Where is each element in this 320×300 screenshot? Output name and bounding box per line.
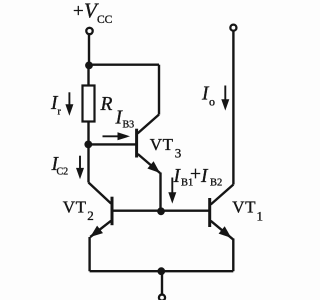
wire VT3 emitter vertical: [159, 173, 161, 212]
wire VT2 emitter vertical: [88, 237, 90, 271]
junction dot top-left: [85, 62, 93, 70]
wire VT1 emitter vertical: [232, 239, 234, 272]
label I_o: [201, 84, 215, 109]
svg-text:VT: VT: [232, 198, 256, 217]
arrow I_o: [221, 86, 229, 111]
label VT3: [150, 135, 182, 161]
wire junction to resistor top: [87, 65, 89, 86]
transistor VT1: [210, 185, 234, 240]
junction dot bottom: [157, 267, 165, 275]
node +VCC label: [73, 0, 113, 26]
svg-text:3: 3: [175, 146, 182, 161]
svg-text:CC: CC: [97, 14, 113, 26]
label I_B1+I_B2: [173, 164, 223, 189]
label VT1: [232, 198, 263, 224]
wire top horizontal: [89, 63, 159, 65]
svg-text:2: 2: [87, 208, 94, 223]
junction dot mid-left: [84, 141, 92, 149]
label I_C2: [51, 154, 69, 177]
label I_r: [50, 93, 62, 117]
wire VT3 collector rail: [158, 65, 160, 115]
arrow I_B1+I_B2: [168, 178, 176, 204]
wire VCC vertical: [88, 35, 90, 65]
svg-text:VT: VT: [63, 198, 87, 217]
terminal +VCC: [86, 28, 92, 34]
wire VT3 base: [89, 143, 136, 145]
wire VT2-VT1 base rail: [113, 209, 209, 211]
wire resistor bottom to junction: [87, 121, 89, 144]
svg-text:B2: B2: [210, 178, 222, 189]
label VT2: [63, 198, 94, 224]
wire bottom rail: [90, 270, 234, 272]
resistor R: [83, 86, 95, 122]
arrow I_r: [65, 92, 73, 115]
terminal Io top-right: [230, 25, 236, 31]
arrow I_C2: [76, 156, 84, 180]
wire right rail: [232, 32, 234, 185]
svg-text:+: +: [73, 1, 84, 22]
svg-text:VT: VT: [150, 135, 174, 154]
label I_B3: [115, 107, 135, 130]
svg-text:+: +: [190, 164, 201, 185]
svg-text:R: R: [100, 94, 113, 115]
transistor VT2: [89, 183, 113, 238]
wire mid junction down to VT2 collector: [87, 144, 89, 182]
arrow I_B3: [103, 132, 131, 140]
junction dot base rail: [157, 207, 165, 215]
transistor VT3: [137, 115, 160, 174]
svg-text:1: 1: [257, 209, 264, 224]
svg-text:C2: C2: [57, 166, 69, 177]
wire bottom terminal stub: [161, 271, 163, 294]
terminal bottom: [159, 295, 165, 300]
svg-text:o: o: [209, 95, 215, 109]
svg-text:B3: B3: [123, 120, 135, 131]
